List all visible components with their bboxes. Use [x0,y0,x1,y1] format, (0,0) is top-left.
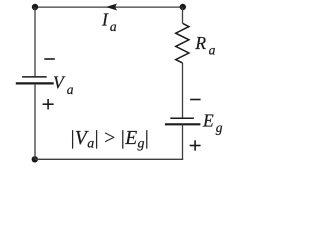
battery Eg long plate [165,123,201,125]
svg-text:Va: Va [53,72,74,97]
battery Eg plus sign [190,140,201,150]
battery Va short plate [22,76,47,78]
wire bottom [35,158,183,160]
wire right middle [182,63,184,118]
current arrow [106,4,117,11]
node junction top-right [180,4,186,10]
resistor Ra [176,23,189,63]
svg-text:Eg: Eg [202,111,223,136]
wire right upper [182,7,184,23]
battery Va minus sign [44,58,55,60]
wire top [35,6,183,8]
battery Va plus sign [43,99,54,109]
wire right lower [182,124,184,159]
svg-text:Ia: Ia [101,9,117,34]
battery Eg short plate [170,117,194,119]
svg-text:|Va| > |Eg|: |Va| > |Eg| [71,128,150,151]
node junction top-left [32,4,38,10]
wire left lower [34,83,36,159]
svg-text:Ra: Ra [194,33,215,58]
battery Va long plate [16,82,54,84]
battery Eg minus sign [190,99,201,101]
wire left upper [34,7,36,77]
node junction bottom-left [32,156,38,162]
